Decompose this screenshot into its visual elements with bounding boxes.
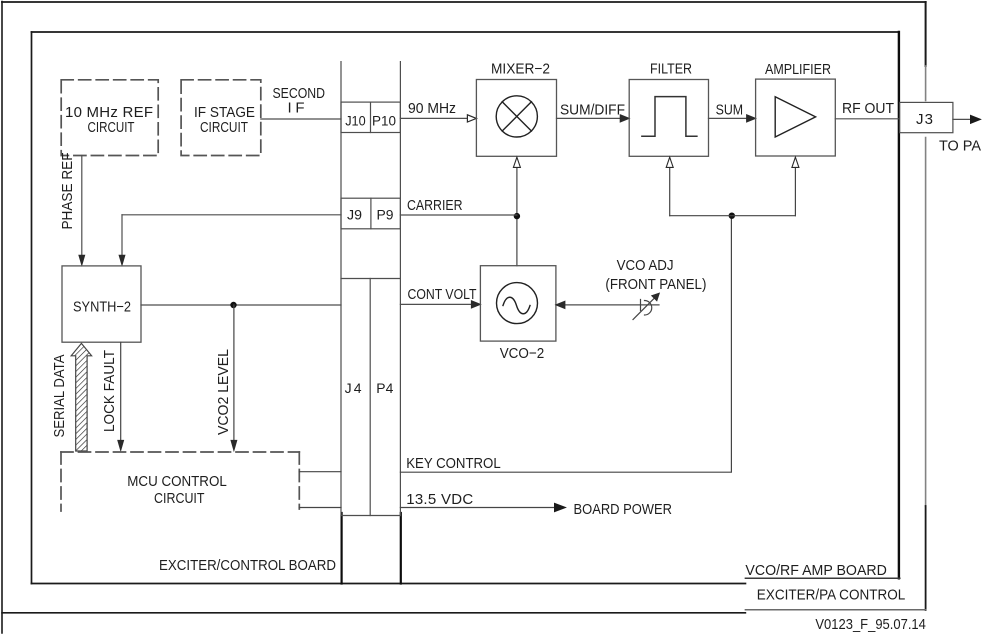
synthesizer SYNTH-2 box (62, 266, 141, 342)
dashed box IF STAGE CIRCUIT (181, 80, 261, 156)
wire CARRIER bend down to SYNTH-2 (121, 215, 123, 258)
svg-text:KEY CONTROL: KEY CONTROL (406, 455, 501, 472)
connector column left line (340, 62, 342, 516)
exciter/control board bottom border (32, 583, 746, 585)
arrowhead up into filter (666, 157, 673, 167)
wire CARRIER from J9 to bend (122, 214, 341, 216)
outer frame right border gray segment below J3 (925, 138, 927, 507)
svg-text:VCO2 LEVEL: VCO2 LEVEL (215, 349, 232, 435)
arrowhead down into MCU lock fault (118, 440, 124, 451)
connector J9/P9 box (341, 198, 400, 229)
svg-text:(FRONT PANEL): (FRONT PANEL) (605, 276, 706, 293)
svg-text:VCO/RF AMP BOARD: VCO/RF AMP BOARD (745, 562, 887, 579)
wire SECOND IF from IF stage to J10 (261, 118, 341, 120)
arrowhead into VCO-2 right (556, 301, 565, 308)
outer frame bottom border (2, 612, 745, 614)
arrowhead up into amplifier (792, 157, 799, 167)
svg-text:V0123_F_95.07.14: V0123_F_95.07.14 (815, 616, 926, 633)
outer frame bottom shelf under EXCITER/PA CONTROL label (745, 609, 925, 611)
filter FILTER box (629, 80, 708, 157)
connector J10/P10 divider (370, 102, 372, 132)
outer frame right border upper black segment (925, 2, 927, 66)
wire LOCK FAULT from SYNTH-2 down to MCU (120, 342, 122, 443)
arrowhead up into mixer (513, 157, 520, 167)
svg-text:CARRIER: CARRIER (407, 197, 463, 214)
svg-text:P9: P9 (377, 207, 394, 223)
vco/rf amp board bottom shelf under label (745, 577, 899, 579)
svg-text:J3: J3 (916, 111, 933, 128)
board divider edge below connector left (341, 513, 343, 584)
wire SUM from filter to amplifier (709, 117, 748, 119)
svg-text:VCO ADJ: VCO ADJ (617, 257, 674, 274)
dashed box MCU left edge (60, 452, 62, 511)
connector J10/P10 box (341, 102, 400, 132)
wire from mixer bottom to VCO-2 (carrier riser) (516, 158, 518, 266)
svg-text:SERIAL DATA: SERIAL DATA (51, 355, 68, 438)
svg-text:EXCITER/PA CONTROL: EXCITER/PA CONTROL (757, 587, 906, 604)
svg-text:CIRCUIT: CIRCUIT (88, 119, 135, 136)
svg-text:IF: IF (288, 100, 305, 117)
mixer circle symbol (496, 96, 537, 137)
svg-text:MCU CONTROL: MCU CONTROL (127, 473, 227, 490)
connector column right line (399, 62, 401, 516)
wire MCU to J4 13.5 VDC (299, 507, 341, 509)
wire CONT VOLT from P4 to VCO-2 (400, 303, 472, 305)
svg-text:13.5 VDC: 13.5 VDC (406, 491, 473, 508)
connector J4/P4 top line (341, 278, 400, 280)
svg-text:SYNTH−2: SYNTH−2 (73, 299, 131, 316)
amplifier triangle symbol (775, 97, 815, 137)
connector column bottom line (341, 515, 400, 517)
svg-text:P10: P10 (372, 113, 396, 129)
oscillator VCO-2 box (480, 266, 556, 341)
wire PHASE REF from 10 MHz box down to SYNTH-2 (81, 156, 83, 259)
svg-text:PHASE REF: PHASE REF (59, 153, 76, 230)
node junction dot key control riser (729, 213, 735, 219)
mixer U MIXER-2 box (476, 80, 556, 157)
dashed box MCU CONTROL CIRCUIT top (61, 451, 299, 453)
VCO-2 circle symbol (497, 283, 538, 324)
inner board frame right border (VCO/RF AMP BOARD) (898, 32, 900, 578)
mixer X diagonal 1 (502, 102, 531, 131)
arrowhead into amplifier (747, 115, 756, 122)
wire filter/amp key feed horizontal (670, 215, 796, 217)
svg-text:P4: P4 (376, 380, 393, 396)
svg-text:AMPLIFIER: AMPLIFIER (765, 61, 831, 78)
dashed box 10 MHz REF CIRCUIT (61, 80, 158, 156)
wire CARRIER from junction to J9/P9 (400, 214, 517, 216)
mixer X diagonal 2 (502, 102, 531, 131)
inner board frame top border (32, 31, 899, 33)
serial data hatched arrow SYNTH-2 to MCU (71, 343, 91, 451)
dashed box MCU right edge (298, 452, 300, 509)
filter bandpass symbol (642, 97, 697, 137)
svg-text:LOCK FAULT: LOCK FAULT (101, 350, 118, 432)
svg-text:CIRCUIT: CIRCUIT (154, 490, 205, 507)
wire SYNTH-2 output to connector (cont volt) (141, 304, 341, 306)
connector J3 box (900, 102, 953, 132)
wire VCO ADJ into VCO-2 right (564, 304, 659, 306)
svg-text:SUM/DIFF: SUM/DIFF (560, 102, 625, 119)
svg-text:J9: J9 (347, 207, 362, 223)
svg-text:RF OUT: RF OUT (842, 100, 894, 117)
arrowhead BOARD POWER (555, 503, 566, 511)
wire 13.5 VDC to BOARD POWER (400, 507, 557, 509)
arrowhead into mixer (467, 115, 476, 122)
node junction dot VCO2 level tap (230, 302, 236, 308)
wire VCO2 LEVEL from junction down to MCU (233, 305, 235, 443)
svg-text:MIXER−2: MIXER−2 (491, 61, 550, 78)
outer frame right border gray segment above J3 (925, 66, 927, 101)
outer frame EXCITER/PA CONTROL left border (1, 2, 3, 634)
svg-text:SUM: SUM (716, 102, 744, 119)
wire riser to filter bottom (669, 158, 671, 216)
svg-text:CIRCUIT: CIRCUIT (200, 119, 248, 136)
amplifier AMPLIFIER box (756, 79, 836, 156)
wire RF OUT from amplifier to J3 (835, 118, 899, 120)
svg-text:BOARD POWER: BOARD POWER (574, 501, 673, 518)
wire riser to amplifier bottom (794, 158, 796, 216)
connector J4/P4 divider (369, 279, 371, 516)
arrowhead into VCO-2 left (471, 301, 480, 308)
VCO-2 sine wave (503, 297, 530, 314)
arrowhead TO PA (971, 115, 981, 123)
outer frame right border lower black segment (925, 506, 927, 610)
wire TO PA output from J3 (953, 118, 972, 120)
svg-text:FILTER: FILTER (650, 61, 692, 78)
svg-text:VCO−2: VCO−2 (500, 345, 545, 362)
svg-text:TO PA: TO PA (939, 138, 981, 155)
wire 90 MHz from P10 to mixer (400, 117, 468, 119)
inner board frame left border (31, 32, 33, 584)
arrowhead down into SYNTH-2 from carrier (119, 255, 125, 265)
wire SUM/DIFF from mixer to filter (557, 117, 622, 119)
svg-text:EXCITER/CONTROL BOARD: EXCITER/CONTROL BOARD (159, 557, 336, 574)
svg-text:J10: J10 (345, 113, 366, 129)
arrowhead into filter (620, 115, 629, 122)
outer frame top border (2, 1, 926, 3)
wire KEY CONTROL from P4 right (400, 216, 731, 473)
board divider edge below connector right (400, 513, 402, 584)
svg-text:J4: J4 (345, 380, 362, 396)
VCO ADJ variable arrow symbol (641, 300, 652, 316)
wire MCU to J4 key control (299, 471, 341, 473)
connector J9/P9 divider (370, 198, 372, 229)
node junction dot carrier tap (514, 213, 520, 219)
svg-text:CONT VOLT: CONT VOLT (408, 286, 477, 303)
arrowhead down into SYNTH-2 from phase ref (79, 255, 85, 265)
svg-text:90 MHz: 90 MHz (408, 100, 456, 117)
arrowhead down into MCU vco2 level (231, 440, 237, 451)
